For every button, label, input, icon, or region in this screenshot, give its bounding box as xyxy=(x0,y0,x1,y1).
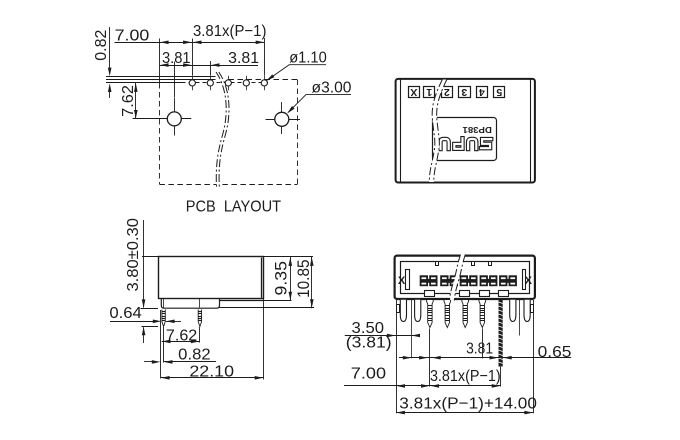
svg-text:3.81x(P−1): 3.81x(P−1) xyxy=(193,23,267,40)
svg-text:4: 4 xyxy=(479,86,485,98)
svg-text:7.00: 7.00 xyxy=(115,27,150,44)
svg-text:7.62: 7.62 xyxy=(120,85,137,117)
svg-text:3.81x(P−1)+14.00: 3.81x(P−1)+14.00 xyxy=(399,396,537,413)
svg-text:0.82: 0.82 xyxy=(178,346,211,363)
svg-text:5: 5 xyxy=(496,86,502,98)
svg-text:1: 1 xyxy=(426,86,432,98)
svg-text:3.81: 3.81 xyxy=(228,50,259,67)
svg-text:7.62: 7.62 xyxy=(166,328,197,345)
svg-text:9.35: 9.35 xyxy=(271,261,290,295)
svg-text:PCB LAYOUT: PCB LAYOUT xyxy=(186,198,281,215)
svg-text:ø1.10: ø1.10 xyxy=(289,50,327,67)
svg-text:DP381: DP381 xyxy=(462,125,492,135)
svg-text:3: 3 xyxy=(461,86,467,98)
svg-text:0.64: 0.64 xyxy=(109,305,142,322)
svg-text:3.80±0.30: 3.80±0.30 xyxy=(125,218,142,292)
svg-text:3.81: 3.81 xyxy=(162,50,191,67)
svg-text:3.81: 3.81 xyxy=(466,340,493,357)
svg-text:X: X xyxy=(410,86,417,98)
svg-text:0.82: 0.82 xyxy=(93,30,110,61)
svg-text:10.85: 10.85 xyxy=(294,260,313,298)
svg-text:7.00: 7.00 xyxy=(351,366,386,383)
svg-text:(3.81): (3.81) xyxy=(346,335,392,352)
svg-text:2: 2 xyxy=(444,86,450,98)
svg-text:ø3.00: ø3.00 xyxy=(312,80,352,97)
svg-text:X: X xyxy=(398,275,406,287)
svg-text:3.81x(P−1): 3.81x(P−1) xyxy=(430,368,501,385)
svg-text:0.65: 0.65 xyxy=(538,344,572,361)
svg-text:22.10: 22.10 xyxy=(189,364,234,381)
